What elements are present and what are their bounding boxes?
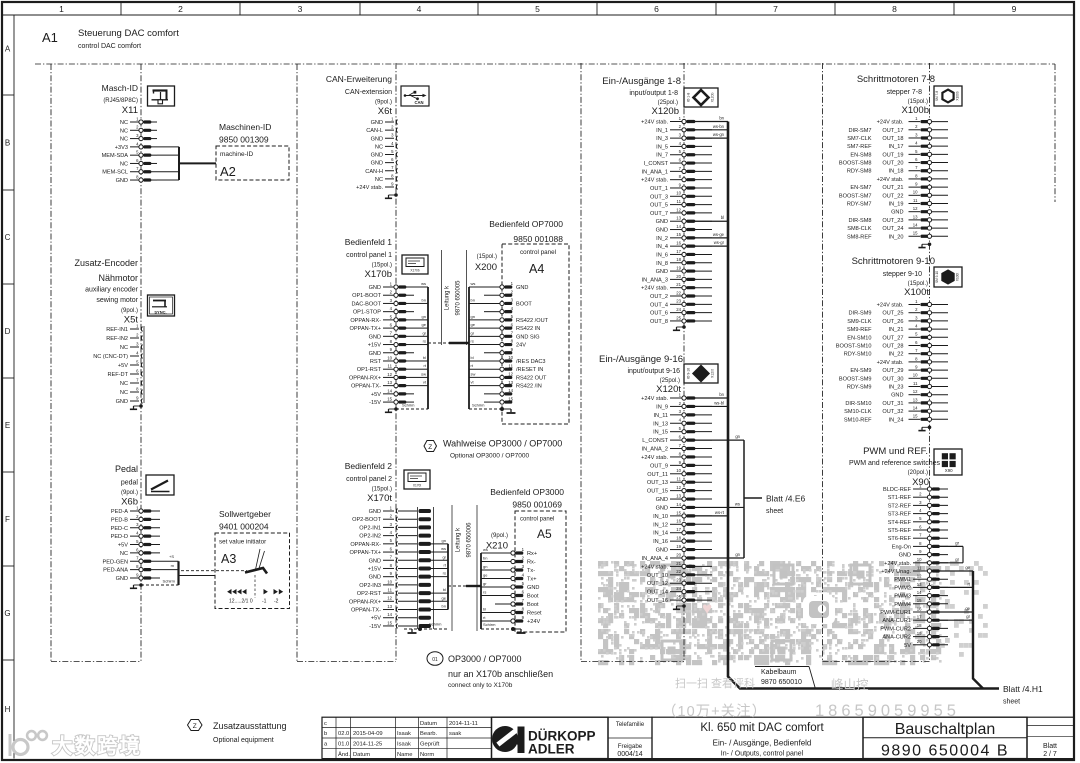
svg-text:DAC-BOOT: DAC-BOOT bbox=[351, 301, 381, 307]
svg-text:ws-ge: ws-ge bbox=[713, 232, 725, 237]
svg-text:IN_ANA_2: IN_ANA_2 bbox=[642, 447, 668, 453]
svg-text:OP2-BOOT: OP2-BOOT bbox=[352, 517, 381, 523]
svg-text:ST5-REF: ST5-REF bbox=[888, 528, 912, 534]
svg-text:RS422 IN: RS422 IN bbox=[516, 326, 540, 332]
svg-text:15: 15 bbox=[913, 414, 918, 419]
svg-text:11: 11 bbox=[917, 565, 922, 570]
svg-text:IN_12: IN_12 bbox=[653, 522, 668, 528]
svg-text:13: 13 bbox=[917, 582, 922, 587]
svg-text:4: 4 bbox=[417, 4, 422, 14]
icon X90 squares bbox=[934, 449, 962, 475]
svg-text:(15pol.): (15pol.) bbox=[372, 263, 392, 269]
connector X120b pins 1-25 bbox=[641, 116, 712, 325]
svg-text:GND: GND bbox=[656, 228, 668, 234]
svg-text:9870 650010: 9870 650010 bbox=[761, 679, 802, 686]
svg-text:OUT_10: OUT_10 bbox=[647, 573, 668, 579]
svg-text:10: 10 bbox=[913, 373, 918, 378]
svg-text:rs: rs bbox=[423, 339, 426, 344]
svg-text:Telefamilie: Telefamilie bbox=[616, 722, 645, 728]
svg-text:SM8-CLK: SM8-CLK bbox=[847, 226, 872, 232]
svg-text:OUT_9: OUT_9 bbox=[650, 463, 668, 469]
svg-text:24V: 24V bbox=[516, 343, 526, 349]
svg-text:NC: NC bbox=[375, 177, 383, 183]
svg-text:IN_16: IN_16 bbox=[653, 539, 668, 545]
svg-text:Rx-: Rx- bbox=[527, 560, 536, 566]
svg-text:GND: GND bbox=[369, 509, 381, 515]
svg-text:BOOST-SM8: BOOST-SM8 bbox=[839, 161, 872, 167]
svg-text:IO 1-8: IO 1-8 bbox=[687, 93, 691, 103]
svg-text:X120t: X120t bbox=[711, 369, 715, 378]
svg-text:OUT_32: OUT_32 bbox=[882, 409, 903, 415]
svg-text:Ein-/Ausgänge 1-8: Ein-/Ausgänge 1-8 bbox=[602, 76, 681, 87]
svg-text:GND: GND bbox=[116, 576, 128, 582]
svg-text:IN_13: IN_13 bbox=[653, 421, 668, 427]
svg-text:OUT_15: OUT_15 bbox=[647, 489, 668, 495]
ground symbol X6b bbox=[139, 583, 143, 587]
svg-text:5V: 5V bbox=[904, 643, 911, 649]
svg-text:13: 13 bbox=[913, 214, 918, 219]
svg-text:IN_9: IN_9 bbox=[656, 404, 668, 410]
svg-text:CAN-Erweiterung: CAN-Erweiterung bbox=[326, 74, 392, 84]
svg-text:Schirm: Schirm bbox=[483, 622, 496, 627]
cable link X170b to X200 (Leitung k) bbox=[428, 250, 469, 345]
svg-text:OUT_20: OUT_20 bbox=[882, 161, 903, 167]
svg-text:OUT_6: OUT_6 bbox=[650, 311, 668, 317]
ground symbol X6t bbox=[394, 193, 398, 197]
svg-text:control panel: control panel bbox=[520, 517, 554, 523]
svg-text:IN_ANA_4: IN_ANA_4 bbox=[642, 556, 668, 562]
svg-text:Masch-ID: Masch-ID bbox=[102, 83, 138, 93]
svg-text:Bearb.: Bearb. bbox=[420, 731, 437, 737]
svg-text:8: 8 bbox=[892, 4, 897, 14]
svg-text:+24V stab.: +24V stab. bbox=[877, 303, 904, 309]
svg-text:19: 19 bbox=[917, 631, 922, 636]
svg-text:IN_3: IN_3 bbox=[656, 136, 668, 142]
svg-text:X170t: X170t bbox=[413, 484, 421, 488]
svg-text:02.0: 02.0 bbox=[338, 731, 349, 737]
svg-text:nur an X170b anschließen: nur an X170b anschließen bbox=[448, 669, 553, 679]
shield Schirm X200 bbox=[469, 403, 516, 414]
svg-text:connect only to X170b: connect only to X170b bbox=[448, 682, 513, 689]
svg-text:OPPAN-TX-: OPPAN-TX- bbox=[351, 608, 381, 614]
svg-text:16: 16 bbox=[676, 519, 681, 524]
svg-text:gn: gn bbox=[735, 552, 740, 557]
svg-text:Schrittmotoren 9-10: Schrittmotoren 9-10 bbox=[852, 256, 935, 267]
svg-text:12.....2/1 0: 12.....2/1 0 bbox=[229, 599, 253, 605]
svg-text:11: 11 bbox=[677, 477, 682, 482]
box A2 machine-ID (Maschinen-ID 9850 001309) bbox=[216, 122, 289, 180]
svg-text:Ein- / Ausgänge, Bedienfeld: Ein- / Ausgänge, Bedienfeld bbox=[713, 739, 812, 748]
svg-text:Wahlweise OP3000 / OP7000: Wahlweise OP3000 / OP7000 bbox=[443, 439, 562, 449]
svg-text:21: 21 bbox=[676, 561, 681, 566]
svg-text:GND: GND bbox=[371, 161, 383, 167]
svg-text:bl: bl bbox=[721, 215, 724, 220]
note 01 connect only to X170b bbox=[427, 652, 553, 689]
svg-text:EN-SM7: EN-SM7 bbox=[850, 185, 871, 191]
svg-text:bl: bl bbox=[471, 355, 474, 360]
svg-text:NC: NC bbox=[375, 144, 383, 150]
box A4 Bedienfeld OP7000 control panel bbox=[489, 219, 569, 424]
connector X100t pins 1-15 bbox=[836, 299, 948, 423]
svg-text:Datum: Datum bbox=[420, 721, 437, 727]
svg-text:EN-SM10: EN-SM10 bbox=[847, 335, 871, 341]
connector X11 pins 1-8 bbox=[102, 116, 157, 184]
svg-text:11: 11 bbox=[677, 199, 682, 204]
svg-text:PWM3: PWM3 bbox=[894, 594, 911, 600]
svg-text:15: 15 bbox=[676, 510, 681, 515]
svg-text:ANA-CUR1: ANA-CUR1 bbox=[882, 618, 911, 624]
svg-text:OP2-IN2: OP2-IN2 bbox=[359, 534, 381, 540]
svg-text:NC: NC bbox=[120, 120, 128, 126]
svg-text:OUT_31: OUT_31 bbox=[882, 401, 903, 407]
svg-text:NC: NC bbox=[120, 128, 128, 134]
svg-text:control DAC comfort: control DAC comfort bbox=[78, 43, 141, 50]
svg-text:IN_18: IN_18 bbox=[889, 169, 904, 175]
svg-text:A1: A1 bbox=[42, 30, 58, 45]
svg-text:IN_23: IN_23 bbox=[889, 385, 904, 391]
svg-text:♥: ♥ bbox=[702, 599, 712, 618]
svg-text:IN_22: IN_22 bbox=[889, 352, 904, 358]
svg-text:13: 13 bbox=[913, 397, 918, 402]
svg-text:GND: GND bbox=[369, 285, 381, 291]
svg-text:gn: gn bbox=[471, 314, 475, 319]
svg-text:GND: GND bbox=[891, 210, 903, 216]
icon pedal X6b bbox=[146, 475, 174, 495]
svg-text:SM7-REF: SM7-REF bbox=[847, 144, 872, 150]
svg-text:IN_19: IN_19 bbox=[889, 202, 904, 208]
icon IO diamond X120t (filled) bbox=[684, 364, 718, 383]
svg-text:13: 13 bbox=[387, 380, 392, 385]
svg-text:+5V: +5V bbox=[118, 363, 128, 369]
svg-text:input/output 9-16: input/output 9-16 bbox=[627, 368, 680, 375]
svg-text:X90: X90 bbox=[945, 468, 953, 473]
svg-text:GND: GND bbox=[656, 497, 668, 503]
connector X11 Masch-ID header bbox=[102, 83, 138, 116]
svg-text:18: 18 bbox=[917, 623, 922, 628]
svg-text:RDY-SM10: RDY-SM10 bbox=[844, 352, 872, 358]
svg-text:Isaak: Isaak bbox=[397, 742, 411, 748]
svg-text:IN_7: IN_7 bbox=[656, 153, 668, 159]
svg-text:MEM-SCL: MEM-SCL bbox=[102, 170, 128, 176]
svg-text:ws-bl: ws-bl bbox=[714, 400, 724, 405]
svg-text:input/output 1-8: input/output 1-8 bbox=[629, 90, 678, 97]
svg-text:IO 9-16: IO 9-16 bbox=[687, 368, 691, 379]
svg-text:IN_ANA_3: IN_ANA_3 bbox=[642, 277, 668, 283]
svg-text:/RESET IN: /RESET IN bbox=[516, 367, 543, 373]
svg-text:OUT_24: OUT_24 bbox=[882, 226, 903, 232]
svg-text:OUT_21: OUT_21 bbox=[882, 185, 903, 191]
svg-text:ws-gr: ws-gr bbox=[714, 240, 725, 245]
svg-text:ST1-REF: ST1-REF bbox=[888, 495, 912, 501]
title block Blatt 2/7 bbox=[1027, 717, 1074, 758]
svg-text:sw: sw bbox=[471, 371, 476, 376]
svg-text:C: C bbox=[5, 233, 11, 242]
svg-text:auxiliary encoder: auxiliary encoder bbox=[85, 287, 139, 294]
svg-text:Boot: Boot bbox=[527, 594, 539, 600]
svg-text:PWM-CUR1: PWM-CUR1 bbox=[880, 610, 911, 616]
svg-text:GND: GND bbox=[527, 585, 539, 591]
wire bus X11 pins 4,5,7,8 to A2 bbox=[157, 147, 216, 180]
svg-text:Leitung k: Leitung k bbox=[456, 527, 462, 552]
svg-text:13: 13 bbox=[387, 604, 392, 609]
svg-text:9890 650004 B: 9890 650004 B bbox=[881, 742, 1009, 759]
svg-text:Kl. 650 mit DAC comfort: Kl. 650 mit DAC comfort bbox=[700, 722, 824, 734]
svg-text:EN-SM8: EN-SM8 bbox=[850, 152, 871, 158]
shield Schirm X210 bbox=[481, 622, 526, 633]
svg-text:X100t: X100t bbox=[956, 273, 960, 281]
svg-text:NC (CNC-DT): NC (CNC-DT) bbox=[93, 354, 128, 360]
svg-text:ws: ws bbox=[421, 281, 426, 286]
ground symbol X100b bbox=[928, 242, 932, 246]
svg-text:DIR-SM7: DIR-SM7 bbox=[849, 128, 872, 134]
svg-text:CAN-H: CAN-H bbox=[365, 169, 383, 175]
svg-text:20: 20 bbox=[676, 552, 681, 557]
title block Telefamilie / Freigabe bbox=[608, 717, 652, 758]
svg-text:+24V stab.: +24V stab. bbox=[877, 120, 904, 126]
svg-text:14: 14 bbox=[387, 388, 392, 393]
svg-text:bn: bn bbox=[483, 556, 487, 561]
svg-text:9850 001309: 9850 001309 bbox=[219, 135, 269, 145]
svg-text:15: 15 bbox=[917, 598, 922, 603]
svg-text:RST: RST bbox=[370, 359, 382, 365]
connector X120b Ein-/Ausgänge 1-8 header bbox=[602, 76, 681, 117]
svg-text:25: 25 bbox=[676, 594, 681, 599]
svg-text:Bauschaltplan: Bauschaltplan bbox=[895, 721, 996, 738]
svg-text:SM7-CLK: SM7-CLK bbox=[847, 136, 872, 142]
svg-text:GND: GND bbox=[116, 399, 128, 405]
connector X120t pins 1-25 bbox=[641, 392, 712, 604]
svg-text:IN_10: IN_10 bbox=[653, 514, 668, 520]
svg-text:BLDC-REF: BLDC-REF bbox=[883, 487, 912, 493]
svg-text:REF-DT: REF-DT bbox=[107, 372, 128, 378]
svg-text:ST2-REF: ST2-REF bbox=[888, 503, 912, 509]
svg-text:GND: GND bbox=[899, 553, 911, 559]
svg-text:9401 000204: 9401 000204 bbox=[219, 522, 269, 532]
svg-text:24: 24 bbox=[676, 586, 681, 591]
svg-text:OUT_17: OUT_17 bbox=[882, 128, 903, 134]
svg-text:(20pol.): (20pol.) bbox=[908, 470, 928, 476]
icon IO diamond X120b bbox=[684, 88, 718, 107]
svg-text:17: 17 bbox=[676, 527, 681, 532]
svg-text:PWM4: PWM4 bbox=[894, 602, 911, 608]
svg-text:18: 18 bbox=[676, 536, 681, 541]
box A3 Sollwertgeber set value initiator bbox=[215, 509, 290, 609]
svg-text:12: 12 bbox=[387, 596, 392, 601]
svg-text:Blatt /4.E6: Blatt /4.E6 bbox=[766, 494, 805, 504]
svg-text:CAN: CAN bbox=[414, 100, 423, 105]
svg-text:Änd.: Änd. bbox=[338, 751, 350, 758]
svg-text:OUT_13: OUT_13 bbox=[647, 480, 668, 486]
svg-text:16: 16 bbox=[917, 606, 922, 611]
svg-text:Schirm: Schirm bbox=[163, 579, 176, 584]
svg-text:X120b: X120b bbox=[652, 106, 679, 117]
connector X170t pins 1-15 bbox=[349, 505, 398, 630]
svg-text:Maschinen-ID: Maschinen-ID bbox=[219, 122, 271, 132]
svg-text:OPPAN-TX+: OPPAN-TX+ bbox=[350, 550, 381, 556]
svg-text:GND SIG: GND SIG bbox=[516, 334, 540, 340]
svg-text:10: 10 bbox=[913, 190, 918, 195]
svg-text:OUT_2: OUT_2 bbox=[650, 294, 668, 300]
icon stepper hexagon X100b bbox=[934, 86, 962, 106]
svg-text:PWM1: PWM1 bbox=[894, 577, 911, 583]
svg-text:Rx+: Rx+ bbox=[527, 551, 537, 557]
svg-text:rs: rs bbox=[443, 571, 446, 576]
svg-text:bn: bn bbox=[442, 604, 446, 609]
svg-text:+15V: +15V bbox=[368, 566, 381, 572]
svg-text:NC: NC bbox=[120, 381, 128, 387]
svg-text:DIR-SM10: DIR-SM10 bbox=[845, 401, 871, 407]
svg-text:X170b: X170b bbox=[365, 269, 392, 280]
svg-text:IN_11: IN_11 bbox=[653, 413, 668, 419]
svg-text:NC: NC bbox=[120, 161, 128, 167]
svg-text:(15pol.): (15pol.) bbox=[372, 487, 392, 493]
connector X170b Bedienfeld 1 header bbox=[345, 237, 393, 280]
svg-text:OUT_30: OUT_30 bbox=[882, 376, 903, 382]
svg-text:EN-SM9: EN-SM9 bbox=[850, 368, 871, 374]
svg-text:OP1-BOOT: OP1-BOOT bbox=[352, 293, 381, 299]
svg-text:+24V stab.: +24V stab. bbox=[877, 360, 904, 366]
svg-text:(9pol.): (9pol.) bbox=[121, 308, 138, 314]
svg-text:machine-ID: machine-ID bbox=[220, 151, 254, 158]
icon sewing machine SYNC X5t bbox=[148, 295, 175, 316]
svg-text:A5: A5 bbox=[537, 527, 552, 541]
svg-text:ge: ge bbox=[471, 322, 476, 327]
svg-text:REF-IN2: REF-IN2 bbox=[106, 336, 128, 342]
svg-text:Schrittmotoren 7-8: Schrittmotoren 7-8 bbox=[857, 74, 935, 85]
svg-text:GND: GND bbox=[656, 269, 668, 275]
svg-text:(9pol.): (9pol.) bbox=[491, 533, 508, 539]
svg-text:-1: -1 bbox=[262, 599, 267, 605]
ground symbol X5t bbox=[139, 404, 143, 408]
svg-text:Steuerung DAC comfort: Steuerung DAC comfort bbox=[78, 28, 179, 39]
connector X6b Pedal header bbox=[115, 464, 138, 508]
svg-text:+3V3: +3V3 bbox=[115, 145, 128, 151]
connector X5t pins 1-9 bbox=[93, 323, 144, 405]
svg-text:SM8-REF: SM8-REF bbox=[847, 234, 872, 240]
svg-text:rs: rs bbox=[471, 339, 474, 344]
svg-text:IN_17: IN_17 bbox=[889, 144, 904, 150]
svg-text:L_CONST: L_CONST bbox=[642, 438, 668, 444]
svg-text:OP1-RST: OP1-RST bbox=[357, 367, 382, 373]
svg-text:PWM-CUR2: PWM-CUR2 bbox=[880, 626, 911, 632]
svg-text:24: 24 bbox=[676, 307, 681, 312]
title block drawing title bbox=[652, 717, 863, 758]
svg-text:X11: X11 bbox=[122, 105, 138, 116]
svg-text:GND: GND bbox=[891, 393, 903, 399]
svg-text:12: 12 bbox=[676, 485, 681, 490]
svg-text:+S: +S bbox=[169, 554, 174, 559]
svg-text:OPPAN-RX+: OPPAN-RX+ bbox=[349, 599, 381, 605]
svg-text:6: 6 bbox=[654, 4, 659, 14]
wires X120b to main bus with colour labels bbox=[695, 116, 728, 247]
svg-text:01: 01 bbox=[432, 657, 438, 663]
connector X210 pins 1-9 bbox=[481, 547, 542, 629]
svg-text:(15pol.): (15pol.) bbox=[477, 254, 497, 260]
connector X200 designation bbox=[475, 254, 497, 273]
svg-text:OUT_25: OUT_25 bbox=[882, 311, 903, 317]
svg-text:gr: gr bbox=[955, 557, 959, 562]
svg-text:+24V stab.: +24V stab. bbox=[641, 286, 668, 292]
svg-text:Optional OP3000 / OP7000: Optional OP3000 / OP7000 bbox=[450, 453, 530, 460]
svg-text:gn: gn bbox=[442, 538, 446, 543]
svg-text:PED-B: PED-B bbox=[111, 517, 128, 523]
connector X100b Schrittmotoren 7-8 header bbox=[857, 74, 935, 116]
svg-text:1: 1 bbox=[59, 4, 64, 14]
svg-text:19: 19 bbox=[676, 544, 681, 549]
label sheet Blatt /4.H1 bbox=[1003, 684, 1043, 706]
svg-text:ANA-CUR2: ANA-CUR2 bbox=[882, 635, 911, 641]
svg-text:X100b: X100b bbox=[956, 91, 960, 100]
svg-text:0004/14: 0004/14 bbox=[617, 751, 642, 758]
svg-text:+15V: +15V bbox=[368, 343, 381, 349]
svg-text:2014-11-25: 2014-11-25 bbox=[353, 742, 382, 748]
svg-text:Leitung k: Leitung k bbox=[445, 285, 451, 310]
svg-text:+24V stab.: +24V stab. bbox=[641, 564, 668, 570]
svg-text:14: 14 bbox=[913, 406, 918, 411]
svg-text:REF-IN1: REF-IN1 bbox=[106, 327, 128, 333]
svg-text:9: 9 bbox=[1012, 4, 1017, 14]
svg-text:ws-gn: ws-gn bbox=[713, 132, 725, 137]
svg-text:12: 12 bbox=[913, 206, 918, 211]
svg-text:Eng-On: Eng-On bbox=[892, 544, 911, 550]
svg-text:Schirm: Schirm bbox=[402, 403, 415, 408]
label Kabelbaum 9870 650010 bbox=[755, 667, 816, 690]
svg-text:10: 10 bbox=[387, 579, 392, 584]
svg-text:ws-bn: ws-bn bbox=[713, 124, 725, 129]
wires X170b to cable bus (colour coded) bbox=[414, 281, 428, 409]
svg-text:GND: GND bbox=[371, 153, 383, 159]
wires X90 to output bus bbox=[940, 565, 983, 689]
svg-text:OPPAN-RX-: OPPAN-RX- bbox=[350, 318, 381, 324]
svg-text:IN_14: IN_14 bbox=[653, 531, 668, 537]
svg-text:14: 14 bbox=[917, 590, 922, 595]
svg-text:22: 22 bbox=[676, 569, 681, 574]
svg-text:control panel 2: control panel 2 bbox=[346, 476, 392, 483]
connector X6t CAN-Erweiterung header bbox=[326, 74, 392, 117]
svg-text:RS422 /IN: RS422 /IN bbox=[516, 384, 542, 390]
svg-text:GND: GND bbox=[369, 575, 381, 581]
svg-text:control panel: control panel bbox=[520, 249, 556, 256]
svg-text:PED-D: PED-D bbox=[111, 534, 128, 540]
svg-text:18: 18 bbox=[676, 257, 681, 262]
svg-text:BOOST-SM7: BOOST-SM7 bbox=[839, 193, 872, 199]
svg-text:GND: GND bbox=[369, 558, 381, 564]
watermark QR band bbox=[598, 561, 988, 665]
svg-text:bl: bl bbox=[443, 587, 446, 592]
svg-text:DIR-SM9: DIR-SM9 bbox=[849, 311, 872, 317]
connector X170b pins 1-15 bbox=[349, 281, 414, 406]
icon control panel X170b bbox=[402, 255, 428, 274]
svg-text:2: 2 bbox=[178, 4, 183, 14]
wire X6b pins 7,8 to bus and A3 bbox=[141, 554, 247, 585]
svg-text:22: 22 bbox=[676, 290, 681, 295]
box A5 Bedienfeld OP3000 control panel bbox=[490, 487, 566, 632]
svg-text:Bedienfeld OP7000: Bedienfeld OP7000 bbox=[489, 219, 563, 229]
svg-text:15: 15 bbox=[913, 231, 918, 236]
svg-text:19: 19 bbox=[676, 265, 681, 270]
svg-text:gn: gn bbox=[422, 314, 426, 319]
svg-text:F: F bbox=[5, 515, 10, 524]
svg-text:(RJ45/8P8C): (RJ45/8P8C) bbox=[103, 98, 138, 104]
svg-text:PED-C: PED-C bbox=[111, 526, 128, 532]
wire tap to sheet 4.E6 bbox=[744, 494, 805, 516]
svg-text:2014-11-11: 2014-11-11 bbox=[449, 721, 478, 727]
svg-text:11: 11 bbox=[388, 364, 393, 369]
svg-text:Datum: Datum bbox=[353, 752, 370, 758]
wire ferrules X170t adapter bbox=[398, 507, 448, 629]
svg-text:7: 7 bbox=[773, 4, 778, 14]
title block Dürkopp Adler logo bbox=[492, 717, 609, 758]
